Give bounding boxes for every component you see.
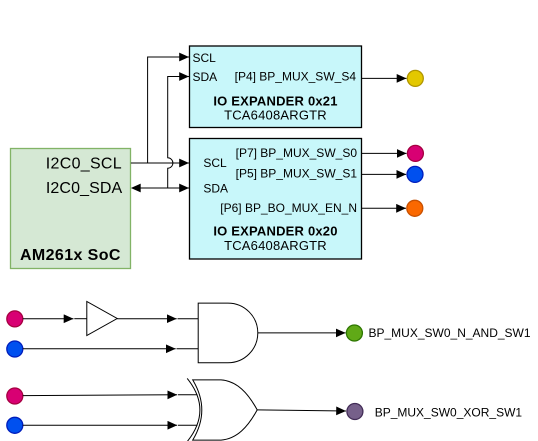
XOR input B stub bbox=[178, 424, 198, 426]
wire blue to XOR input B bbox=[23, 424, 177, 426]
AND input A stub bbox=[178, 318, 199, 320]
node purple BP_MUX_SW0_XOR_SW1 bbox=[347, 404, 363, 420]
IO expander U1 0x21 box bbox=[190, 46, 362, 128]
svg-text:SCL: SCL bbox=[203, 156, 227, 170]
node magenta SW0 input (XOR row) bbox=[7, 388, 23, 404]
svg-text:SDA: SDA bbox=[203, 181, 228, 195]
svg-text:IO EXPANDER 0x21: IO EXPANDER 0x21 bbox=[213, 94, 337, 109]
AND gate bbox=[198, 303, 258, 363]
node magenta BP_MUX_SW_S0 bbox=[407, 145, 423, 161]
AND input B stub bbox=[177, 348, 199, 350]
svg-text:IO EXPANDER 0x20: IO EXPANDER 0x20 bbox=[213, 223, 337, 238]
node yellow BP_MUX_SW_S4 bbox=[407, 70, 423, 86]
wire I2C0_SCL SoC to expander 0x20 bbox=[131, 162, 189, 164]
wire AND out to green node bbox=[258, 332, 346, 334]
svg-text:SCL: SCL bbox=[193, 51, 217, 65]
wire P6 to orange node bbox=[362, 207, 407, 209]
wire P4 to yellow node bbox=[362, 77, 407, 79]
IO expander U2 0x20 box bbox=[190, 139, 362, 260]
svg-text:BP_MUX_SW0_N_AND_SW1: BP_MUX_SW0_N_AND_SW1 bbox=[369, 326, 531, 340]
svg-text:BP_MUX_SW0_XOR_SW1: BP_MUX_SW0_XOR_SW1 bbox=[375, 405, 523, 419]
svg-text:I2C0_SDA: I2C0_SDA bbox=[46, 180, 123, 197]
wire magenta to XOR input A bbox=[23, 394, 177, 397]
svg-text:AM261x SoC: AM261x SoC bbox=[20, 247, 121, 264]
wire I2C0_SDA SoC to expander 0x20 (bidirectional) bbox=[132, 187, 189, 189]
svg-text:SDA: SDA bbox=[193, 70, 218, 84]
wire buffer out to AND input A bbox=[117, 318, 177, 320]
wire P7 to magenta node bbox=[362, 152, 407, 154]
svg-text:[P6] BP_BO_MUX_EN_N: [P6] BP_BO_MUX_EN_N bbox=[220, 201, 357, 215]
XOR input A stub bbox=[178, 394, 198, 396]
XOR gate outer input arc bbox=[187, 378, 200, 441]
node blue SW1 input (AND row) bbox=[7, 341, 23, 357]
SoC box AM261x bbox=[11, 149, 131, 269]
node green BP_MUX_SW0_N_AND_SW1 bbox=[346, 325, 362, 341]
node blue BP_MUX_SW_S1 bbox=[407, 166, 423, 182]
wire P5 to blue node bbox=[362, 173, 407, 175]
svg-text:I2C0_SCL: I2C0_SCL bbox=[46, 156, 122, 173]
node blue SW1 input (XOR row) bbox=[7, 417, 23, 433]
buffer input stub bbox=[74, 318, 87, 320]
node orange BP_BO_MUX_EN_N bbox=[407, 200, 423, 216]
wire XOR out to purple node bbox=[257, 410, 346, 411]
XOR gate body bbox=[193, 380, 258, 440]
node magenta SW0 input (AND row) bbox=[7, 311, 23, 327]
wire blue to AND input B bbox=[23, 348, 176, 350]
wire SDA branch up to expander 0x21 with hop over SCL bbox=[168, 77, 189, 189]
arrowhead into SoC on SDA wire bbox=[131, 184, 141, 193]
svg-text:TCA6408ARGTR: TCA6408ARGTR bbox=[224, 238, 327, 253]
svg-text:[P7] BP_MUX_SW_S0: [P7] BP_MUX_SW_S0 bbox=[236, 146, 358, 160]
svg-text:[P4] BP_MUX_SW_S4: [P4] BP_MUX_SW_S4 bbox=[235, 70, 357, 84]
buffer (inverter-less triangle) bbox=[87, 302, 117, 336]
svg-text:TCA6408ARGTR: TCA6408ARGTR bbox=[224, 107, 327, 122]
wire SCL branch up to expander 0x21 bbox=[148, 57, 189, 163]
svg-text:[P5] BP_MUX_SW_S1: [P5] BP_MUX_SW_S1 bbox=[236, 167, 358, 181]
wire magenta to buffer bbox=[23, 318, 74, 320]
